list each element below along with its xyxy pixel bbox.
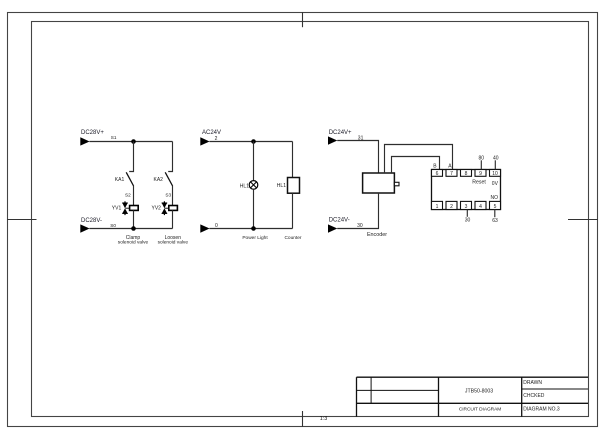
svg-text:CIRCUIT DIAGRAM: CIRCUIT DIAGRAM [459, 406, 501, 412]
stub 40 at pin 10 [494, 160, 496, 169]
svg-text:NO: NO [491, 195, 499, 201]
off-page arrow DC24V+ [328, 136, 337, 144]
wire: DC28V+ top bus [89, 141, 172, 143]
svg-text:AC24V: AC24V [202, 130, 221, 136]
svg-text:HL1: HL1 [277, 183, 286, 189]
svg-text:A: A [448, 164, 452, 170]
centering tick top [302, 12, 304, 27]
svg-text:YV1: YV1 [112, 206, 122, 212]
wire: branch 1 upper [129, 142, 133, 172]
svg-text:DC28V-: DC28V- [81, 218, 102, 224]
coil YV2 [169, 206, 178, 211]
svg-text:30: 30 [465, 217, 471, 223]
svg-text:DC24V-: DC24V- [329, 218, 350, 224]
svg-text:HL1: HL1 [240, 183, 249, 189]
wire: lamp branch lower [253, 189, 255, 228]
wire: DC28V- bottom bus [89, 228, 172, 230]
junction node lamp bottom [251, 226, 256, 231]
wire: branch 1 lower [133, 210, 135, 228]
svg-text:80: 80 [479, 156, 485, 162]
svg-text:B: B [433, 164, 437, 170]
contact KA1 blade [126, 172, 133, 186]
svg-text:Counter: Counter [284, 235, 301, 241]
encoder connector tab [394, 182, 399, 186]
stub 63 at pin 5 [494, 210, 496, 218]
svg-text:2: 2 [450, 204, 453, 210]
counter module top terminal row [432, 170, 501, 177]
svg-text:40: 40 [493, 156, 499, 162]
solenoid valve symbol YV1 [122, 201, 129, 215]
svg-text:S2: S2 [125, 193, 131, 198]
svg-text:0V: 0V [492, 181, 499, 187]
wire: counter branch lower [292, 193, 294, 228]
off-page arrow DC28V+ [80, 137, 89, 145]
wire: branch 2 upper [168, 142, 172, 172]
svg-text:0: 0 [215, 223, 218, 229]
contact KA2 blade [165, 172, 172, 186]
lamp HL1 [249, 181, 258, 190]
svg-text:YV2: YV2 [152, 206, 162, 212]
svg-text:3: 3 [465, 204, 468, 210]
svg-text:JTB50-8003: JTB50-8003 [465, 388, 493, 394]
wire: encoder to DC24V- [337, 193, 378, 229]
svg-text:DC24V+: DC24V+ [329, 130, 352, 136]
svg-text:63: 63 [492, 218, 498, 224]
svg-text:4: 4 [479, 204, 482, 210]
wire: DC24V+ to encoder [337, 141, 378, 174]
svg-text:8: 8 [465, 171, 468, 177]
svg-text:31: 31 [358, 135, 364, 141]
svg-text:KA1: KA1 [115, 177, 125, 183]
svg-text:5: 5 [494, 204, 497, 210]
stub 80 at pin 9 [480, 160, 482, 169]
stub 30 at pin 3 [466, 210, 468, 217]
junction node S1 bus [131, 139, 136, 144]
svg-text:solenoid valve: solenoid valve [158, 240, 189, 246]
centering tick bottom [302, 411, 304, 427]
counter element HL1 [288, 178, 300, 194]
svg-text:10: 10 [492, 171, 498, 177]
junction node S0 bus [131, 226, 136, 231]
wire: AC24V bottom bus [209, 228, 292, 230]
wire: encoder B signal [392, 157, 440, 174]
wire: counter branch upper [292, 142, 294, 178]
svg-text:1: 1 [436, 204, 439, 210]
svg-text:Power Light: Power Light [242, 235, 268, 241]
solenoid valve symbol YV2 [162, 201, 169, 215]
off-page arrow AC24V 0 [200, 224, 209, 232]
junction node lamp top [251, 139, 256, 144]
wire: lamp branch upper [253, 142, 255, 181]
title block frame [357, 377, 589, 417]
svg-text:S3: S3 [165, 193, 171, 198]
encoder body [363, 173, 395, 193]
svg-text:7: 7 [450, 171, 453, 177]
centering tick left [7, 219, 37, 221]
svg-text:1:3: 1:3 [320, 416, 328, 422]
centering tick right [568, 219, 598, 221]
wire: encoder A signal [385, 145, 453, 174]
counter module bottom terminal row [432, 201, 501, 209]
wire: branch 1 middle [133, 186, 135, 206]
svg-text:CHCKED: CHCKED [523, 393, 545, 399]
svg-text:S0: S0 [110, 223, 116, 228]
svg-text:9: 9 [479, 171, 482, 177]
svg-text:DC28V+: DC28V+ [81, 130, 104, 136]
off-page arrow DC24V- [328, 224, 337, 232]
svg-text:KA2: KA2 [154, 177, 164, 183]
svg-text:Reset: Reset [472, 179, 486, 185]
off-page arrow DC28V- [80, 224, 89, 232]
svg-text:30: 30 [357, 223, 363, 229]
wire: branch 2 lower [172, 210, 174, 228]
svg-text:solenoid valve: solenoid valve [118, 240, 149, 246]
svg-text:2: 2 [215, 136, 218, 142]
svg-text:6: 6 [436, 171, 439, 177]
svg-text:DRAWN: DRAWN [523, 380, 542, 386]
coil YV1 [130, 206, 139, 211]
svg-text:S1: S1 [111, 135, 117, 140]
svg-text:Encoder: Encoder [367, 232, 387, 238]
counter module U1 body [432, 170, 501, 210]
svg-text:DIAGRAM NO.3: DIAGRAM NO.3 [523, 406, 560, 412]
wire: branch 2 middle [172, 186, 174, 206]
off-page arrow AC24V [200, 137, 209, 145]
wire: AC24V top bus [209, 141, 292, 143]
